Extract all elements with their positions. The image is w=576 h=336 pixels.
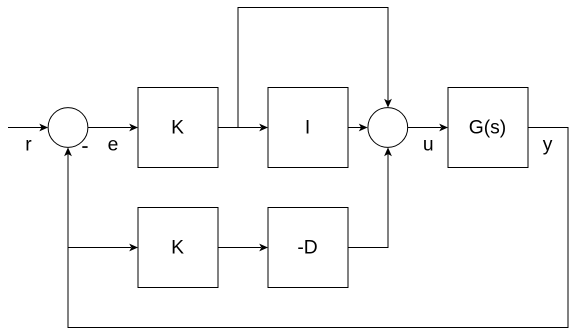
wire K1 to block I — [218, 124, 268, 132]
svg-text:G(s): G(s) — [469, 117, 506, 138]
wire -D output up into S2 bottom — [348, 154, 388, 248]
block K1 proportional gain — [138, 88, 218, 168]
svg-text:-D: -D — [297, 237, 317, 258]
wire branch from feedback line to block K2 — [68, 244, 138, 252]
block K2 derivative path gain — [138, 208, 218, 288]
svg-text:K: K — [171, 117, 184, 138]
wire I to summing junction S2 — [348, 124, 368, 132]
block G plant G(s) — [448, 88, 528, 168]
wire K2 to block -D — [218, 244, 268, 252]
svg-text:K: K — [171, 237, 184, 258]
wire feedback from G output down around bottom and up into S1 — [68, 128, 568, 328]
svg-text:y: y — [543, 134, 553, 155]
wire feedforward branch junction up and over to S2 — [238, 8, 388, 128]
summing junction S1 — [48, 108, 88, 148]
svg-text:u: u — [423, 134, 434, 155]
wire input r arrow into summing junction — [8, 124, 48, 132]
wire S2 to block G with label u — [407, 124, 448, 132]
svg-text:r: r — [25, 134, 32, 155]
summing junction S2 — [368, 108, 408, 148]
svg-text:e: e — [108, 134, 119, 155]
minus sign at S1 feedback input — [82, 146, 87, 148]
block I integrator — [268, 88, 348, 168]
svg-text:I: I — [305, 117, 310, 138]
wire S1 to block K1 with label e — [88, 124, 138, 132]
block -D derivative — [268, 208, 348, 288]
